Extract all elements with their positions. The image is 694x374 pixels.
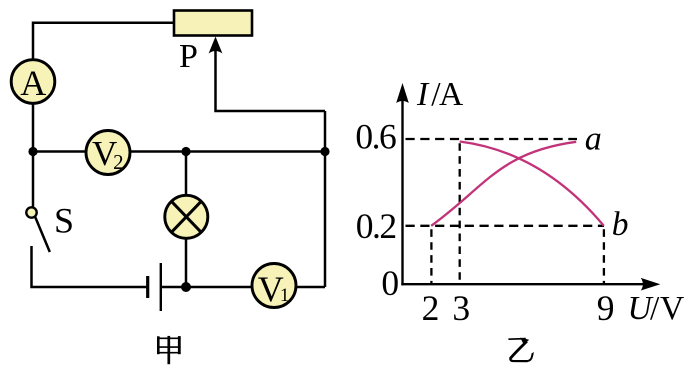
svg-text:2: 2 xyxy=(113,150,124,174)
svg-text:0.2: 0.2 xyxy=(356,206,396,246)
svg-text:b: b xyxy=(612,206,629,243)
svg-text:0.6: 0.6 xyxy=(355,116,396,156)
svg-text:A: A xyxy=(439,76,463,113)
svg-text:/: / xyxy=(650,290,660,327)
wire: bottom-left to battery xyxy=(32,246,148,287)
node B junction dot (lamp top) xyxy=(181,147,190,156)
wire: top-left from rheostat to ammeter and down to node A xyxy=(33,23,174,152)
wire: right vertical xyxy=(324,111,327,287)
svg-text:a: a xyxy=(585,121,602,158)
node C junction dot (right bus) xyxy=(320,147,329,156)
wire: battery to right bottom corner xyxy=(161,286,325,289)
battery positive plate (long) xyxy=(160,263,162,311)
label jia (circuit) xyxy=(157,336,181,364)
svg-text:3: 3 xyxy=(452,288,470,328)
wire: lamp branch vertical xyxy=(185,152,188,288)
lamp L cross xyxy=(171,201,201,232)
wire: middle horizontal bus xyxy=(33,150,325,153)
svg-text:V: V xyxy=(660,290,684,327)
label yi (graph) xyxy=(508,338,534,362)
rheostat resistor box xyxy=(174,11,252,36)
switch S pivot xyxy=(26,207,36,217)
switch S blade xyxy=(35,217,50,253)
dashed line x=3 xyxy=(459,143,461,284)
voltmeter V2 circle xyxy=(86,131,130,175)
svg-text:I: I xyxy=(416,76,430,113)
battery negative plate (short) xyxy=(146,276,149,298)
graph x-axis U/V xyxy=(401,283,645,285)
wire: switch branch vertical (node A to switch) xyxy=(32,152,35,207)
curve b xyxy=(460,142,604,226)
curve a xyxy=(431,142,576,226)
svg-text:1: 1 xyxy=(280,285,290,306)
graph y-axis I/A xyxy=(401,98,403,285)
node A junction dot xyxy=(28,147,37,156)
wire: slider arrow shaft to right vertical xyxy=(216,47,326,111)
svg-text:S: S xyxy=(54,201,74,241)
lamp L circle xyxy=(165,195,208,238)
dashed line x=2 xyxy=(430,229,432,284)
slider arrow P head xyxy=(209,37,223,54)
dashed line x=9 xyxy=(603,229,605,284)
svg-text:2: 2 xyxy=(422,288,440,328)
svg-text:9: 9 xyxy=(597,288,615,328)
svg-text:A: A xyxy=(20,63,46,103)
node D junction dot (battery-lamp) xyxy=(181,282,191,292)
ammeter A1 circle xyxy=(11,60,55,104)
dashed line y=0.2 xyxy=(406,225,605,227)
svg-text:0: 0 xyxy=(381,263,399,303)
voltmeter V1 circle xyxy=(252,264,296,308)
dashed line y=0.6 xyxy=(406,138,578,140)
svg-text:P: P xyxy=(179,38,198,75)
